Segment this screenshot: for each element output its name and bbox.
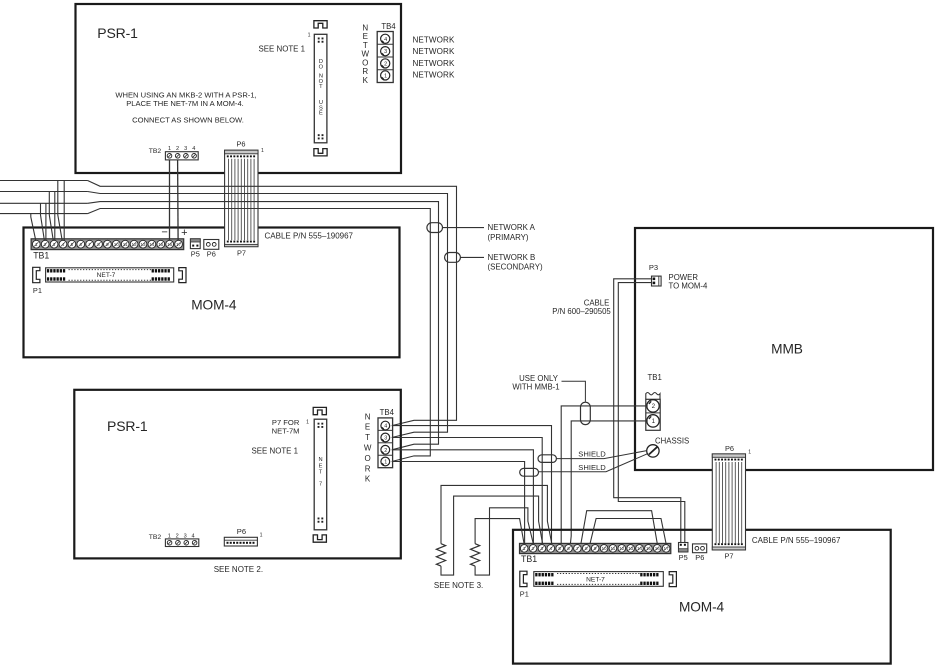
key bracket bottom (NET-7 slot) xyxy=(313,535,326,542)
connector P6 (bottom PSR-1) xyxy=(224,537,257,546)
svg-text:3: 3 xyxy=(384,436,387,442)
svg-text:9: 9 xyxy=(594,546,597,551)
terminal block TB4 (top PSR-1) xyxy=(377,32,393,83)
svg-text:1: 1 xyxy=(308,33,311,39)
svg-text:NETWORK A: NETWORK A xyxy=(488,223,536,232)
resistor R-B xyxy=(471,544,480,566)
svg-text:P7: P7 xyxy=(237,249,246,258)
key bracket top (NET-7 slot) xyxy=(313,407,326,414)
svg-text:11: 11 xyxy=(611,546,616,551)
connector slot NET-7 (bottom PSR-1) xyxy=(314,419,327,530)
svg-text:4: 4 xyxy=(62,242,65,247)
svg-text:NETWORK: NETWORK xyxy=(413,47,455,56)
svg-text:11: 11 xyxy=(123,242,128,247)
terminal block TB4 (bottom PSR-1) xyxy=(378,418,393,468)
wire network-4 incoming (left edge) xyxy=(0,213,88,215)
svg-text:NETWORK: NETWORK xyxy=(413,70,455,79)
svg-text:1: 1 xyxy=(384,73,387,79)
terminal strip TB1 (bottom MOM-4) xyxy=(520,543,671,553)
svg-text:5: 5 xyxy=(558,546,561,551)
svg-text:9: 9 xyxy=(106,242,109,247)
ferrite NETWORK B xyxy=(445,253,461,263)
ribbon cable P6 to P7 (left) xyxy=(225,150,258,246)
wire network-3 incoming (left edge) xyxy=(0,202,88,204)
svg-text:13: 13 xyxy=(140,242,146,247)
svg-text:15: 15 xyxy=(646,546,652,551)
svg-text:TB4: TB4 xyxy=(380,408,395,417)
svg-text:WITH MMB-1: WITH MMB-1 xyxy=(512,383,559,392)
svg-text:TB1: TB1 xyxy=(648,373,662,382)
svg-text:P5: P5 xyxy=(679,553,688,562)
ribbon cable P6 to P7 (right) xyxy=(712,454,745,550)
svg-text:1: 1 xyxy=(523,546,526,551)
ferrite NETWORK A xyxy=(427,223,443,233)
svg-text:W: W xyxy=(362,50,370,59)
svg-text:14: 14 xyxy=(149,242,155,247)
svg-text:1: 1 xyxy=(384,460,387,466)
ferrite MMB pair xyxy=(581,402,591,424)
connector P3 xyxy=(652,276,662,286)
svg-text:P6: P6 xyxy=(725,444,734,453)
connector P6 (middle) xyxy=(204,240,219,250)
svg-text:NETWORK: NETWORK xyxy=(413,59,455,68)
svg-text:1: 1 xyxy=(260,533,263,539)
svg-text:15: 15 xyxy=(158,242,164,247)
svg-text:12: 12 xyxy=(132,242,138,247)
svg-text:3: 3 xyxy=(541,546,544,551)
bracket right (bottom) xyxy=(669,572,676,587)
terminal block TB1 (MMB) xyxy=(646,393,660,400)
wire network-2 incoming (left edge) xyxy=(0,191,88,193)
svg-text:PSR-1: PSR-1 xyxy=(107,418,148,434)
svg-text:SEE NOTE 3.: SEE NOTE 3. xyxy=(434,581,483,590)
svg-text:MOM-4: MOM-4 xyxy=(679,600,725,615)
wire network-1 run to TB4-4 xyxy=(88,181,457,426)
wire MMB TB1-2 to MOM-4 TB1-5 xyxy=(561,406,648,544)
resistor R-A lead top xyxy=(441,485,552,543)
svg-text:16: 16 xyxy=(167,242,173,247)
svg-text:SEE NOTE 1: SEE NOTE 1 xyxy=(252,447,298,456)
svg-text:2: 2 xyxy=(384,448,387,454)
svg-text:CONNECT AS SHOWN BELOW.: CONNECT AS SHOWN BELOW. xyxy=(132,116,244,125)
svg-text:1: 1 xyxy=(35,242,38,247)
svg-text:14: 14 xyxy=(637,546,643,551)
wire shield B to chassis xyxy=(539,454,648,472)
svg-text:P6: P6 xyxy=(237,527,246,536)
svg-text:O: O xyxy=(319,65,324,71)
resistor R-A lead bottom xyxy=(441,496,543,575)
svg-text:7: 7 xyxy=(576,546,579,551)
ferrite pair A (bottom) xyxy=(538,455,556,463)
svg-text:+: + xyxy=(181,227,187,239)
wire network-3 run to TB4-2 xyxy=(88,202,439,450)
svg-text:2: 2 xyxy=(532,546,535,551)
bracket right (middle) xyxy=(179,268,186,283)
connector P5 (bottom) xyxy=(679,543,688,552)
wire P3-2 (power cable) xyxy=(618,283,685,543)
svg-text:6: 6 xyxy=(567,546,570,551)
leader NETWORK B xyxy=(460,256,484,258)
svg-text:P5: P5 xyxy=(191,250,200,259)
wire TB4-2 to TB1-2 (bottom) xyxy=(392,450,534,544)
connector P5 (middle) xyxy=(190,239,200,249)
svg-text:SEE NOTE 2.: SEE NOTE 2. xyxy=(214,565,263,574)
terminal block TB2 (bottom PSR-1) xyxy=(165,539,198,547)
bracket P1 left (middle) xyxy=(33,267,40,282)
svg-text:E: E xyxy=(319,111,323,117)
svg-text:3: 3 xyxy=(384,49,387,55)
svg-text:CHASSIS: CHASSIS xyxy=(655,437,689,446)
wire shield A to chassis xyxy=(556,451,647,459)
svg-text:PSR-1: PSR-1 xyxy=(97,25,138,41)
wire jumper TB1-7 to TB1-16 xyxy=(581,511,657,544)
leader NETWORK A xyxy=(443,227,485,229)
svg-text:TO MOM-4: TO MOM-4 xyxy=(669,282,709,291)
svg-text:4: 4 xyxy=(384,37,387,43)
svg-text:TB1: TB1 xyxy=(521,554,537,564)
key bracket bottom (do-not-use slot) xyxy=(314,149,327,156)
svg-text:7: 7 xyxy=(319,482,322,488)
wire TB4-4 to TB1-4 (bottom) xyxy=(392,426,552,544)
board MMB xyxy=(635,228,933,470)
svg-text:W: W xyxy=(364,444,372,453)
key bracket top (do-not-use slot) xyxy=(314,21,327,28)
terminal block TB2 (top PSR-1) xyxy=(165,152,198,160)
svg-text:(SECONDARY): (SECONDARY) xyxy=(488,263,543,272)
svg-text:TB2: TB2 xyxy=(149,534,162,541)
wire MMB TB1-1 to MOM-4 TB1-6 xyxy=(570,421,647,544)
svg-text:CABLE P/N 555–190967: CABLE P/N 555–190967 xyxy=(265,231,354,240)
svg-text:N: N xyxy=(365,412,371,421)
wire network-1 incoming (left edge) xyxy=(0,180,88,182)
svg-text:4: 4 xyxy=(550,546,553,551)
svg-text:R: R xyxy=(362,67,368,76)
svg-text:17: 17 xyxy=(176,242,182,247)
wire network-2 run to TB4-3 xyxy=(88,192,448,438)
svg-text:K: K xyxy=(363,76,369,85)
bracket P1 left (bottom) xyxy=(520,571,527,586)
svg-text:8: 8 xyxy=(97,242,100,247)
wire jumper TB1-8 to TB1-17 xyxy=(590,519,666,544)
svg-text:TB2: TB2 xyxy=(149,148,162,155)
terminal strip TB1 (middle MOM-4) xyxy=(31,239,184,250)
svg-text:E: E xyxy=(365,423,370,432)
board MOM-4 (bottom) xyxy=(513,530,891,664)
board PSR-1 (bottom) xyxy=(74,390,401,559)
svg-text:N: N xyxy=(362,23,368,32)
svg-text:12: 12 xyxy=(619,546,625,551)
module NET-7 (bottom MOM-4) xyxy=(534,572,664,587)
svg-text:T: T xyxy=(363,41,368,50)
svg-text:2: 2 xyxy=(652,403,656,410)
svg-text:NET-7M: NET-7M xyxy=(272,427,300,436)
wire P3-1 (power cable) xyxy=(614,279,681,543)
connector P6 (bottom MOM-4) xyxy=(693,544,707,553)
svg-text:P/N 600–290505: P/N 600–290505 xyxy=(552,307,611,316)
svg-text:4: 4 xyxy=(384,424,387,430)
svg-text:P1: P1 xyxy=(33,286,42,295)
resistor R-B lead bottom xyxy=(475,508,533,575)
wire TB2-1 to TB1 minus xyxy=(169,160,171,241)
svg-text:T: T xyxy=(365,433,370,442)
svg-text:MMB: MMB xyxy=(771,341,803,356)
resistor R-A xyxy=(436,544,445,566)
svg-text:TB1: TB1 xyxy=(33,250,49,260)
svg-text:O: O xyxy=(362,58,368,67)
svg-text:P1: P1 xyxy=(520,589,529,598)
svg-text:−: − xyxy=(161,226,167,238)
svg-text:7: 7 xyxy=(88,242,91,247)
svg-text:P6: P6 xyxy=(695,553,704,562)
wire network-4 run to TB4-1 xyxy=(88,209,431,462)
svg-text:17: 17 xyxy=(664,546,670,551)
svg-text:16: 16 xyxy=(655,546,661,551)
svg-text:PLACE THE NET-7M IN A MOM-4.: PLACE THE NET-7M IN A MOM-4. xyxy=(126,99,244,108)
svg-text:1: 1 xyxy=(306,420,309,426)
svg-text:TB4: TB4 xyxy=(381,22,396,31)
svg-text:3: 3 xyxy=(53,242,56,247)
svg-text:R: R xyxy=(365,464,371,473)
svg-text:SHIELD: SHIELD xyxy=(578,463,606,472)
svg-text:P7: P7 xyxy=(724,552,733,561)
wire TB4-1 to TB1-1 (bottom) xyxy=(392,462,525,544)
svg-text:10: 10 xyxy=(601,546,607,551)
svg-text:13: 13 xyxy=(628,546,634,551)
svg-text:P3: P3 xyxy=(649,263,658,272)
svg-text:T: T xyxy=(319,470,323,476)
svg-text:SHIELD: SHIELD xyxy=(578,449,606,458)
svg-text:P6: P6 xyxy=(236,140,245,149)
wire TB2-2 to TB1 plus xyxy=(177,160,180,241)
svg-text:NETWORK: NETWORK xyxy=(413,35,455,44)
board MOM-4 (middle) xyxy=(24,228,400,358)
svg-text:CABLE P/N 555–190967: CABLE P/N 555–190967 xyxy=(752,536,841,545)
wire TB4-3 to TB1-3 (bottom) xyxy=(392,438,542,544)
svg-text:MOM-4: MOM-4 xyxy=(191,298,237,313)
svg-text:NET-7: NET-7 xyxy=(586,577,605,584)
svg-text:2: 2 xyxy=(44,242,47,247)
svg-text:O: O xyxy=(364,454,370,463)
svg-text:1: 1 xyxy=(261,148,264,154)
board PSR-1 (top) xyxy=(76,4,402,173)
svg-text:NETWORK B: NETWORK B xyxy=(488,253,536,262)
svg-text:T: T xyxy=(319,84,323,90)
svg-text:E: E xyxy=(363,32,368,41)
svg-text:1: 1 xyxy=(652,418,656,425)
svg-text:N: N xyxy=(318,457,322,463)
leader USE ONLY xyxy=(562,381,586,402)
svg-text:10: 10 xyxy=(114,242,120,247)
svg-text:NET-7: NET-7 xyxy=(97,272,116,279)
chassis screw xyxy=(647,445,659,457)
ferrite pair B (bottom) xyxy=(520,468,539,476)
svg-text:6: 6 xyxy=(79,242,82,247)
svg-text:P6: P6 xyxy=(207,250,216,259)
svg-text:1: 1 xyxy=(748,449,751,455)
svg-text:5: 5 xyxy=(71,242,74,247)
svg-text:K: K xyxy=(365,475,371,484)
resistor R-B lead top xyxy=(475,519,524,544)
svg-text:8: 8 xyxy=(585,546,588,551)
svg-text:(PRIMARY): (PRIMARY) xyxy=(488,233,529,242)
module NET-7 (middle MOM-4) xyxy=(46,268,174,282)
svg-text:E: E xyxy=(319,463,323,469)
svg-text:2: 2 xyxy=(384,61,387,67)
svg-text:SEE NOTE 1: SEE NOTE 1 xyxy=(259,45,305,54)
connector slot DO NOT USE xyxy=(314,34,327,143)
